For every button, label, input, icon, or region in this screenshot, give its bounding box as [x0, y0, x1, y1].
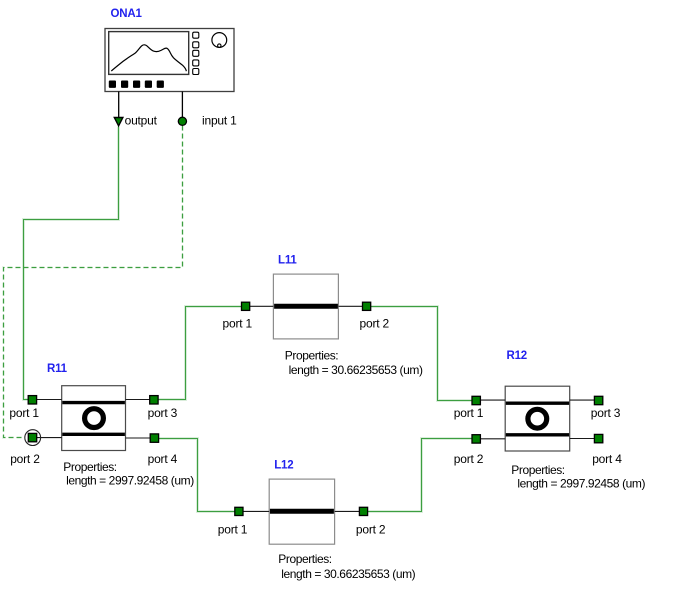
- svg-text:Properties:: Properties:: [63, 460, 116, 474]
- ring resonator R11 label: [47, 363, 68, 375]
- L12 port 1: [235, 507, 269, 515]
- L11 port 2: [338, 302, 370, 310]
- L11 port 1: [242, 302, 274, 310]
- ONA1 input 1 pin label: [202, 114, 237, 128]
- svg-text:port 2: port 2: [10, 452, 40, 466]
- wire ONA1 input 1 to R11 port 2 (dashed): [4, 126, 183, 438]
- waveguide L12 label: [274, 460, 293, 472]
- R11 port 1: [28, 396, 62, 404]
- L11 port 1 label: [223, 316, 253, 330]
- svg-text:port 3: port 3: [148, 406, 178, 420]
- svg-text:port 2: port 2: [356, 522, 386, 536]
- svg-text:L12: L12: [274, 460, 293, 472]
- svg-text:input 1: input 1: [202, 114, 237, 128]
- R11 port 2 label: [10, 452, 40, 466]
- R12 port 1: [472, 396, 505, 404]
- svg-text:length = 2997.92458 (um): length = 2997.92458 (um): [517, 477, 645, 491]
- ring resonator R12 label: [507, 350, 528, 362]
- instrument ONA1 label: [111, 8, 143, 20]
- R12 port 3: [570, 396, 603, 404]
- svg-text:port 1: port 1: [218, 522, 248, 536]
- R11 port 4 label: [148, 452, 178, 466]
- ONA1 soft-key buttons column: [193, 32, 199, 74]
- svg-text:R11: R11: [47, 363, 68, 375]
- svg-text:port 2: port 2: [360, 316, 390, 330]
- R11 port 4: [126, 434, 159, 442]
- svg-text:L11: L11: [278, 255, 297, 267]
- svg-text:Properties:: Properties:: [285, 348, 338, 362]
- svg-text:port 4: port 4: [592, 452, 622, 466]
- svg-text:length = 2997.92458 (um): length = 2997.92458 (um): [66, 474, 194, 488]
- svg-text:length = 30.66235653 (um): length = 30.66235653 (um): [281, 567, 415, 581]
- R12 port 1 label: [454, 406, 484, 420]
- svg-text:output: output: [125, 114, 158, 128]
- L11 properties annotation: [285, 348, 423, 377]
- R11 port 3 label: [148, 406, 178, 420]
- svg-text:port 1: port 1: [223, 316, 253, 330]
- waveguide L12 body: [269, 479, 334, 544]
- R12 port 4: [570, 434, 603, 442]
- ONA1 input 1 pin: [178, 92, 186, 126]
- ONA1 output pin: [114, 92, 123, 126]
- svg-text:R12: R12: [507, 350, 528, 362]
- L12 port 2: [335, 507, 368, 515]
- R12 properties annotation: [511, 463, 645, 491]
- ONA1 front-panel buttons row: [109, 81, 164, 88]
- R11 properties annotation: [63, 460, 194, 488]
- svg-text:port 2: port 2: [454, 452, 484, 466]
- R12 port 2 label: [454, 452, 484, 466]
- R12 port 2: [472, 435, 505, 443]
- instrument ONA1 body: [105, 29, 234, 92]
- svg-text:port 1: port 1: [454, 406, 484, 420]
- svg-text:Properties:: Properties:: [511, 463, 564, 477]
- svg-text:port 3: port 3: [591, 406, 621, 420]
- wire R11 port 3 to L11 port 1: [158, 307, 242, 400]
- ONA1 output pin label: [125, 114, 158, 128]
- ring resonator R12 body: [505, 386, 570, 451]
- L12 port 2 label: [356, 522, 386, 536]
- ONA1 knob: [212, 33, 227, 48]
- svg-text:port 1: port 1: [9, 406, 39, 420]
- wire R11 port 4 to L12 port 1: [159, 439, 235, 512]
- waveguide L11 label: [278, 255, 297, 267]
- wire L11 port 2 to R12 port 1: [371, 307, 472, 401]
- L11 port 2 label: [360, 316, 390, 330]
- wire ONA1 output to R11 port 1: [24, 127, 119, 400]
- L12 port 1 label: [218, 522, 248, 536]
- R12 port 4 label: [592, 452, 622, 466]
- wire L12 port 2 to R12 port 2: [368, 439, 472, 512]
- R12 port 3 label: [591, 406, 621, 420]
- R11 port 3: [126, 396, 159, 404]
- svg-text:length = 30.66235653 (um): length = 30.66235653 (um): [289, 363, 423, 377]
- R11 port 2 (with unconnected marker circle): [25, 430, 62, 446]
- R11 port 1 label: [9, 406, 39, 420]
- ring resonator R11 body: [62, 386, 126, 451]
- svg-text:port 4: port 4: [148, 452, 178, 466]
- waveguide L11 body: [273, 274, 338, 339]
- svg-text:ONA1: ONA1: [111, 8, 143, 20]
- L12 properties annotation: [278, 552, 415, 581]
- svg-text:Properties:: Properties:: [278, 552, 331, 566]
